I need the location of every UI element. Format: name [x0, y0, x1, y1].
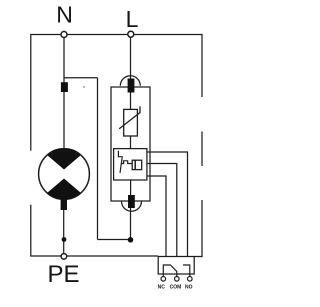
- enclosure bottom edge (right of contacts box): [194, 256, 202, 258]
- svg-text:PE: PE: [47, 261, 79, 288]
- enclosure right border (middle segment): [201, 132, 203, 167]
- monitoring glyph hook: [118, 151, 122, 157]
- changeover contact NO side: [183, 265, 190, 276]
- monitoring unit box: [114, 149, 147, 180]
- monitoring glyph pulse wave: [121, 161, 132, 164]
- svg-text:L: L: [126, 6, 139, 32]
- varistor RV1 body: [124, 109, 138, 136]
- wire branch bottom horizontal: [98, 239, 131, 241]
- spark gap F1 circle: [39, 149, 90, 200]
- changeover contact NC side: [163, 265, 177, 276]
- spark gap top electrode triangle: [40, 149, 88, 170]
- junction dot on PE conductor: [62, 237, 67, 242]
- monitoring glyph window divider: [134, 160, 136, 169]
- enclosure right border (upper segment): [201, 34, 203, 97]
- varistor module box: [111, 87, 150, 201]
- enclosure left border (upper segment): [30, 34, 32, 151]
- wire N vertical: [63, 38, 65, 150]
- wire N-to-varistor branch horizontal: [64, 77, 98, 79]
- terminal L: [128, 31, 134, 37]
- thermal disconnector arc (bottom): [122, 201, 142, 211]
- terminal PE: [61, 254, 67, 260]
- varistor diagonal stroke: [119, 106, 140, 129]
- speck artifact: [83, 86, 85, 88]
- disconnector link on N wire: [61, 82, 68, 92]
- remote signalling contacts box: [158, 257, 194, 275]
- enclosure bottom edge (left of contacts box): [31, 255, 158, 257]
- svg-text:NO: NO: [185, 284, 193, 290]
- enclosure top edge: [31, 34, 202, 36]
- terminal NO: [188, 277, 193, 282]
- wire varistor to monitor: [130, 136, 132, 149]
- wire monitor to bottom disconnector: [130, 180, 132, 196]
- wire module output vertical: [130, 207, 132, 240]
- svg-text:NC: NC: [158, 284, 166, 290]
- terminal NC: [161, 277, 166, 282]
- svg-text:COM: COM: [170, 284, 182, 290]
- wire remote contact NO: [146, 152, 188, 262]
- monitoring glyph descender: [120, 157, 122, 173]
- thermal disconnector link (top): [128, 79, 135, 93]
- wire remote contact COM: [146, 164, 177, 262]
- terminal COM: [175, 277, 180, 282]
- spark gap bottom electrode triangle: [40, 179, 88, 200]
- wire GDT to PE: [63, 208, 65, 253]
- junction dot at module output: [128, 237, 134, 243]
- wire remote contact NC: [146, 176, 166, 262]
- spark gap bottom stub: [61, 199, 67, 211]
- contact stub NC: [162, 274, 164, 276]
- thermal disconnector arc (top): [120, 76, 140, 86]
- wire branch vertical: [97, 78, 99, 240]
- wire varistor module internal top: [130, 92, 132, 109]
- enclosure right border (lower segment): [201, 200, 203, 257]
- enclosure left border (lower segment): [30, 205, 32, 257]
- thermal disconnector link (bottom): [128, 195, 135, 208]
- terminal N: [61, 32, 67, 38]
- svg-text:N: N: [56, 2, 73, 28]
- monitoring glyph window rect: [132, 160, 142, 169]
- wire L vertical: [130, 38, 132, 81]
